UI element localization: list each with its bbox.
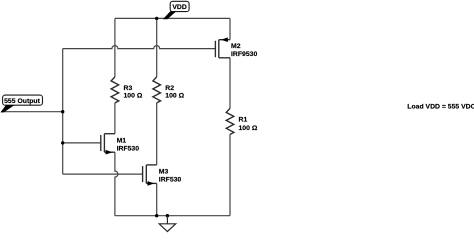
transistor M2 labels: [231, 43, 257, 58]
wire R3 top lead: [114, 18, 116, 77]
wire M3 gate: [63, 173, 143, 175]
transistor M1 labels: [117, 137, 140, 152]
junction dot M3 source / bottom rail: [155, 214, 158, 217]
svg-text:R1: R1: [239, 117, 248, 124]
svg-text:100 Ω: 100 Ω: [165, 93, 184, 100]
resistor R1 labels: [239, 117, 258, 133]
resistor R1: [226, 108, 234, 134]
resistor R3: [111, 77, 119, 103]
svg-text:R3: R3: [124, 85, 133, 92]
svg-text:555 Output: 555 Output: [4, 98, 40, 105]
wire 555 output: [1, 111, 63, 113]
junction dot M1 gate / left rail: [61, 141, 64, 144]
svg-text:VDD: VDD: [172, 4, 187, 11]
svg-text:IRF530: IRF530: [117, 145, 140, 152]
transistor M3 source arrow: [148, 181, 155, 186]
svg-text:IRF9530: IRF9530: [231, 51, 257, 58]
svg-text:M1: M1: [117, 137, 127, 144]
wire top rail VDD: [115, 17, 230, 19]
transistor M2 source arrow: [221, 37, 228, 42]
VDD net label: [163, 1, 189, 19]
transistor M1 (NMOS IRF530): [101, 134, 115, 153]
resistor R3 labels: [124, 85, 143, 100]
wire left rail: [62, 49, 64, 175]
wire R1 bottom lead: [229, 134, 231, 215]
555 Output net label: [1, 95, 43, 112]
svg-text:100 Ω: 100 Ω: [124, 93, 143, 100]
wire R3 to M1 drain: [114, 103, 116, 134]
resistor R2: [153, 77, 161, 103]
junction dot 555 output / left rail: [61, 110, 64, 113]
transistor M1 source arrow: [106, 150, 113, 155]
resistor R2 labels: [165, 85, 184, 100]
transistor M2 (PMOS IRF9530): [215, 40, 230, 58]
wire R2 to M3 drain: [156, 103, 158, 165]
wire M2 source to top rail: [229, 18, 231, 39]
junction dot VDD / R2 branch: [155, 17, 158, 20]
wire M1 source to bottom rail with hop over M3 gate wire: [115, 152, 118, 216]
wire bottom rail: [115, 215, 230, 217]
svg-text:100 Ω: 100 Ω: [239, 125, 258, 132]
transistor M3 (NMOS IRF530): [143, 165, 157, 184]
wire R2 top lead: [156, 18, 158, 77]
wire M3 source to bottom rail: [156, 183, 158, 215]
svg-text:M3: M3: [159, 168, 169, 175]
transistor M3 labels: [159, 168, 182, 183]
wire M2 gate with hops over R3 and R2 branches: [63, 46, 216, 49]
svg-text:M2: M2: [231, 43, 241, 50]
svg-text:IRF530: IRF530: [159, 176, 182, 183]
junction dot ground tap: [166, 214, 169, 217]
wire M2 drain to R1: [229, 58, 231, 109]
ground: [159, 216, 176, 232]
wire M1 gate: [63, 142, 101, 144]
svg-text:R2: R2: [165, 85, 174, 92]
svg-text:Load VDD = 555 VDC: Load VDD = 555 VDC: [407, 104, 474, 111]
